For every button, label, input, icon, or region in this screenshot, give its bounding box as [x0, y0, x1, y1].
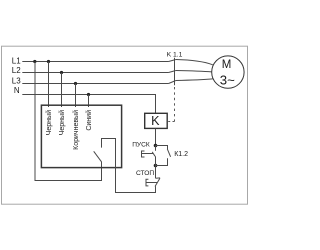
wire L3 to motor [176, 79, 213, 81]
svg-text:Черный: Черный [45, 110, 53, 135]
auxiliary contact K1.2 (NO, parallel to PUSK) [156, 146, 171, 166]
node B junction dot [154, 164, 158, 168]
relay coil K1 [145, 113, 168, 128]
svg-text:3~: 3~ [220, 73, 235, 88]
pushbutton STOP (NC stop button) [116, 166, 161, 193]
contactor main contacts K1.1 [169, 58, 176, 85]
svg-text:L1: L1 [12, 56, 21, 65]
K1.1 mechanical link [174, 58, 176, 85]
junction dot N [87, 93, 90, 96]
wire L3 [22, 83, 168, 85]
node A junction dot [154, 144, 158, 148]
svg-text:ПУСК: ПУСК [132, 142, 150, 149]
svg-text:N: N [14, 86, 20, 95]
svg-text:L2: L2 [12, 66, 21, 75]
dashed link from K1.1 to coil K [174, 87, 176, 122]
wire K coil to node A [155, 129, 157, 146]
svg-text:L3: L3 [12, 76, 21, 85]
wire L1 to device (black) [48, 62, 50, 108]
wire L2 to motor [176, 71, 212, 72]
svg-text:Черный: Черный [58, 110, 66, 135]
wire L1 [22, 61, 168, 63]
K1.1 blade phase L3 [169, 81, 176, 84]
svg-text:СТОП: СТОП [136, 170, 154, 177]
device box (phase control relay) [41, 105, 121, 167]
junction dot L2 [60, 71, 63, 74]
K1.1 blade phase L1 [169, 60, 176, 62]
svg-text:К1.2: К1.2 [174, 151, 188, 158]
wire from L1 around device (left loop) [35, 62, 102, 181]
K1.1 blade phase L2 [169, 71, 176, 73]
wire N to device (blue) [88, 95, 90, 108]
motor M 3~ [212, 56, 244, 88]
pushbutton PUSK (NO start button) [142, 146, 156, 166]
svg-text:Синий: Синий [85, 110, 93, 131]
svg-text:K 1.1: K 1.1 [167, 52, 183, 59]
svg-text:M: M [222, 59, 232, 71]
border frame [2, 46, 248, 204]
wire L2 [22, 72, 168, 74]
wire L2 to device (black) [61, 73, 63, 108]
svg-text:K: K [151, 114, 160, 128]
junction dot L1-a [33, 60, 36, 63]
wire L1 to motor [176, 60, 213, 65]
junction dot L3 [74, 82, 77, 85]
internal relay contact of device [94, 139, 156, 193]
svg-text:Коричневый: Коричневый [72, 110, 80, 150]
wire N [22, 95, 155, 114]
wire L3 to device (brown) [75, 84, 77, 108]
junction dot L1-b [47, 60, 50, 63]
